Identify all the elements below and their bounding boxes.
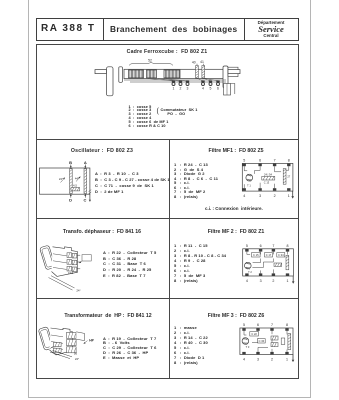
- svg-text:24°: 24°: [75, 357, 79, 361]
- svg-text:44°: 44°: [75, 176, 79, 180]
- label T3: [246, 345, 250, 349]
- svg-text:1: 1: [173, 86, 175, 90]
- svg-text:C 22: C 22: [251, 332, 257, 336]
- svg-text:4,5: 4,5: [73, 184, 77, 188]
- lug 5: [209, 81, 212, 86]
- pin 4 pad: [243, 188, 246, 191]
- svg-text:8: 8: [287, 244, 289, 248]
- svg-text:2: 2: [180, 86, 182, 90]
- svg-text:7: 7: [271, 323, 273, 327]
- svg-text:T 1: T 1: [247, 183, 251, 187]
- internal wiring: [247, 252, 288, 274]
- svg-text:6: 6: [260, 244, 262, 248]
- winding sense arrow left cell: [61, 178, 66, 183]
- svg-text:8: 8: [286, 323, 288, 327]
- bottom pin numbers: [246, 279, 289, 283]
- pin 2 pad: [273, 188, 276, 191]
- svg-text:3: 3: [187, 86, 189, 90]
- output wire bracket: [231, 84, 235, 95]
- lug stack top (hatched): [67, 332, 77, 338]
- pin 5 pad: [242, 328, 245, 331]
- winding bar 27 (hatched): [283, 169, 286, 185]
- svg-text:5: 5: [210, 86, 212, 90]
- lead wire 1: [50, 352, 70, 359]
- pin 8 pad: [285, 328, 288, 331]
- svg-text:24°: 24°: [59, 177, 63, 181]
- pin 7 pad: [272, 249, 275, 252]
- winding L2 (hatched): [147, 70, 157, 78]
- svg-text:2: 2: [274, 194, 276, 198]
- horizontal divider 3: [36, 298, 298, 299]
- pin 5 pad: [245, 249, 248, 252]
- horizontal divider 1: [36, 139, 298, 140]
- capacitor C34: [277, 253, 285, 257]
- coil former tube: [124, 69, 225, 78]
- dimension brace 52: [129, 62, 173, 65]
- label A: [84, 160, 87, 165]
- svg-text:1: 1: [288, 194, 290, 198]
- lead wires: [148, 78, 218, 81]
- label C: [84, 198, 87, 203]
- capacitor C22: [250, 332, 259, 336]
- resistor block (hatched): [274, 263, 282, 266]
- pin 2 pad: [270, 352, 273, 355]
- pin 1 pad: [287, 188, 290, 191]
- bottom winding (hatched): [71, 188, 80, 191]
- pin 1 pad: [286, 273, 289, 276]
- filter MF3 body: [240, 328, 293, 355]
- resistor block lower (hatched): [271, 343, 278, 347]
- svg-text:B: B: [69, 160, 72, 165]
- svg-text:C 13: C 13: [264, 181, 270, 185]
- label T2: [248, 270, 252, 274]
- core body: [52, 247, 78, 277]
- HP arrow: [83, 341, 87, 344]
- lug 2: [179, 81, 182, 86]
- lug row B: [67, 260, 80, 265]
- winding bar A-C (hatched): [84, 169, 87, 194]
- svg-text:24°: 24°: [76, 289, 80, 293]
- lug 4: [201, 81, 204, 86]
- label 24: [75, 357, 79, 361]
- svg-text:3: 3: [259, 194, 261, 198]
- main content box: [36, 44, 299, 379]
- pin 1 pad: [285, 352, 288, 355]
- svg-text:T 3: T 3: [246, 345, 250, 349]
- lead-out arrow pin 1: [292, 276, 295, 284]
- svg-text:5: 5: [243, 159, 245, 163]
- svg-text:4: 4: [202, 86, 204, 90]
- winding L3 (hatched): [164, 70, 180, 78]
- coil T1: [246, 174, 253, 181]
- svg-text:T 2: T 2: [248, 270, 252, 274]
- svg-text:C16: C16: [68, 271, 74, 275]
- label B: [69, 160, 72, 165]
- diode D1: [281, 338, 285, 344]
- lug stack middle (hatched): [67, 340, 77, 346]
- top pin numbers: [243, 159, 290, 163]
- side flap: [76, 332, 84, 341]
- pin 8 pad: [286, 249, 289, 252]
- label HP: [89, 338, 94, 342]
- label C16: [68, 271, 74, 275]
- terminal C arrow: [84, 194, 86, 197]
- label C22: [251, 332, 257, 336]
- svg-text:7: 7: [272, 244, 274, 248]
- label C30: [259, 339, 265, 343]
- label 56: [74, 351, 78, 355]
- resistor block upper (hatched): [271, 336, 278, 340]
- lead-out wire bottom right: [89, 190, 92, 202]
- winding sense arrow mid cell: [76, 177, 81, 182]
- top pin numbers: [243, 323, 288, 327]
- svg-text:56: 56: [74, 351, 78, 355]
- vertical divider: [169, 139, 170, 378]
- lug 6: [216, 81, 219, 86]
- terminal D arrow: [70, 194, 72, 197]
- svg-text:3: 3: [260, 279, 262, 283]
- svg-text:7: 7: [274, 159, 276, 163]
- filter MF2 body: [243, 249, 294, 276]
- svg-text:52: 52: [148, 58, 152, 62]
- pin 3 pad: [259, 273, 262, 276]
- ferrite rod right end: [228, 67, 240, 76]
- pin 5 pad: [243, 164, 246, 167]
- capacitor C15: [252, 253, 261, 257]
- lead wire 2: [51, 276, 75, 288]
- label 52: [148, 58, 152, 62]
- internal wiring: [244, 166, 289, 188]
- winding bar (hatched): [286, 255, 289, 269]
- pin 3 pad: [256, 352, 259, 355]
- svg-text:4: 4: [243, 357, 245, 361]
- capacitor C30: [258, 339, 266, 343]
- svg-text:A: A: [84, 160, 87, 165]
- svg-text:40: 40: [192, 61, 196, 65]
- svg-text:HP: HP: [89, 338, 94, 342]
- svg-text:24 | 54: 24 | 54: [264, 172, 272, 176]
- header box: [36, 18, 299, 41]
- header divider 1: [103, 18, 104, 41]
- horizontal divider 2: [36, 218, 298, 219]
- svg-text:4: 4: [246, 279, 248, 283]
- top pin numbers: [246, 244, 289, 248]
- pin 7 pad: [270, 328, 273, 331]
- labels 40 41: [192, 60, 204, 64]
- terminal A arrow: [84, 165, 86, 169]
- trimmer winding 40 (hatched bar): [196, 64, 199, 78]
- svg-text:3: 3: [257, 357, 259, 361]
- svg-text:6: 6: [259, 159, 261, 163]
- bottom pin numbers: [243, 194, 290, 198]
- core body: [50, 328, 73, 355]
- pin 6 pad: [259, 249, 262, 252]
- winding bar B-D (hatched): [70, 169, 73, 194]
- lug row A: [67, 253, 80, 258]
- lug numbers 1-6: [173, 86, 220, 90]
- pin 6 pad: [256, 328, 259, 331]
- lead-out arrow pin 1: [292, 355, 295, 363]
- bottom lug row 2: [54, 348, 62, 352]
- lead-out arrow pin 1: [291, 191, 294, 199]
- pin 2 pad: [272, 273, 275, 276]
- label 24 54: [264, 172, 272, 176]
- coil T3: [242, 338, 249, 345]
- label T1: [247, 183, 251, 187]
- header divider 2: [244, 18, 245, 41]
- svg-text:8: 8: [288, 159, 290, 163]
- bottom pin numbers: [243, 357, 288, 361]
- lug 1: [172, 81, 175, 86]
- solder lug plate: [124, 80, 226, 82]
- winding bar (hatched): [288, 334, 291, 350]
- lead wire 1: [49, 278, 73, 291]
- svg-text:C 15: C 15: [253, 253, 259, 257]
- svg-text:6: 6: [217, 86, 219, 90]
- label 24: [76, 289, 80, 293]
- pin 4 pad: [242, 352, 245, 355]
- terminal B arrow: [70, 165, 72, 169]
- right mounting bracket: [223, 66, 228, 88]
- left mounting bracket: [107, 67, 114, 96]
- svg-text:5: 5: [246, 244, 248, 248]
- pin 8 pad: [287, 164, 290, 167]
- coil former body: [40, 168, 90, 194]
- label 4,5: [73, 184, 77, 188]
- coil T2: [245, 262, 252, 269]
- svg-text:C 30: C 30: [259, 339, 265, 343]
- winding L1 (hatched): [129, 70, 144, 78]
- label C13: [264, 181, 270, 185]
- internal wiring: [244, 331, 287, 352]
- callout box: [79, 255, 91, 264]
- lead wire 2: [53, 350, 73, 356]
- svg-text:1: 1: [286, 357, 288, 361]
- svg-text:2: 2: [271, 357, 273, 361]
- svg-text:C: C: [84, 198, 87, 203]
- transformer end plate: [40, 245, 56, 270]
- filter MF1 body: [242, 163, 293, 191]
- capacitor block C13 (hatched): [262, 176, 275, 180]
- left collar disc: [119, 67, 123, 83]
- label C34: [278, 253, 284, 257]
- lug row C: [67, 266, 80, 271]
- pin 6 pad: [258, 164, 261, 167]
- svg-text:5: 5: [243, 323, 245, 327]
- output transformer end plate: [38, 327, 54, 351]
- lug 3: [186, 81, 189, 86]
- ferrite rod left end: [95, 70, 107, 74]
- bottom lug row 1: [50, 342, 61, 348]
- capacitor C17: [265, 253, 273, 257]
- label 44: [75, 176, 79, 180]
- svg-text:41: 41: [200, 60, 204, 64]
- lug stack bottom (hatched): [67, 347, 77, 353]
- pin 3 pad: [258, 188, 261, 191]
- label C17: [266, 253, 272, 257]
- pin 7 pad: [273, 164, 276, 167]
- svg-text:C 34: C 34: [278, 253, 284, 257]
- trimmer winding 41 (hatched bar): [202, 64, 205, 78]
- pin 4 pad: [245, 273, 248, 276]
- svg-text:6: 6: [257, 323, 259, 327]
- svg-text:D: D: [69, 198, 72, 203]
- label 27: [287, 174, 290, 178]
- svg-text:4: 4: [243, 194, 245, 198]
- svg-text:1: 1: [287, 279, 289, 283]
- right bracket foot: [224, 84, 231, 96]
- label D: [69, 198, 72, 203]
- label 24: [59, 177, 63, 181]
- svg-text:C 17: C 17: [266, 253, 272, 257]
- label C15: [253, 253, 259, 257]
- svg-text:2: 2: [272, 279, 274, 283]
